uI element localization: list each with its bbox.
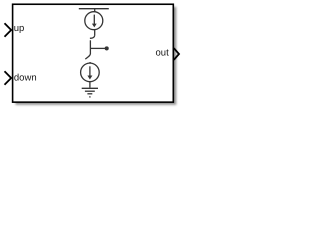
svg-text:down: down [14,73,37,84]
svg-text:out: out [156,48,170,59]
svg-text:up: up [14,23,25,34]
